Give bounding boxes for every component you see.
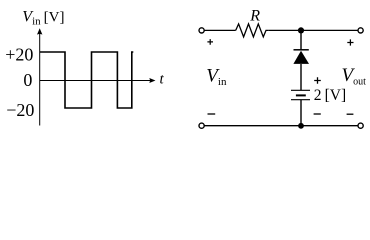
svg-text:−20: −20 bbox=[6, 100, 34, 120]
resistor R bbox=[236, 24, 269, 37]
svg-text:Vout: Vout bbox=[342, 65, 367, 88]
terminal top-left bbox=[199, 28, 204, 33]
wire diode to battery bbox=[300, 64, 302, 90]
plus sign top-left bbox=[207, 39, 213, 45]
x-axis arrowhead bbox=[149, 78, 155, 83]
terminal bottom-left bbox=[199, 123, 204, 128]
battery E plate long bottom bbox=[291, 99, 310, 101]
y-axis arrowhead bbox=[37, 28, 42, 34]
svg-text:Vin: Vin bbox=[206, 66, 227, 89]
wire battery to bottom rail bbox=[300, 100, 302, 126]
node junction top bbox=[298, 27, 304, 33]
minus sign battery bottom bbox=[314, 113, 321, 115]
wire top-left to resistor bbox=[204, 29, 235, 31]
diode D triangle bbox=[293, 51, 309, 64]
minus sign bottom-left bbox=[208, 113, 216, 115]
plus sign top-right bbox=[347, 39, 353, 45]
square wave Vin(t) bbox=[40, 52, 134, 108]
svg-text:t: t bbox=[160, 72, 165, 88]
node junction bottom bbox=[298, 123, 304, 129]
bottom rail wire bbox=[204, 125, 358, 127]
svg-text:+20: +20 bbox=[5, 44, 33, 64]
y-axis bbox=[39, 34, 41, 126]
svg-text:Vin [V]: Vin [V] bbox=[22, 8, 64, 27]
svg-text:R: R bbox=[249, 8, 260, 25]
battery E plate long top bbox=[291, 89, 310, 91]
diode D cathode bar bbox=[294, 49, 309, 51]
terminal top-right bbox=[358, 28, 363, 33]
svg-text:2 [V]: 2 [V] bbox=[314, 87, 346, 104]
terminal bottom-right bbox=[358, 123, 363, 128]
battery E plate short middle bbox=[296, 94, 306, 96]
wire node to diode bbox=[300, 30, 302, 49]
wire resistor to node bbox=[268, 29, 358, 31]
battery plus sign bbox=[314, 77, 321, 84]
svg-text:0: 0 bbox=[23, 70, 32, 90]
x-axis bbox=[40, 80, 151, 82]
minus sign bottom-right bbox=[347, 113, 354, 115]
